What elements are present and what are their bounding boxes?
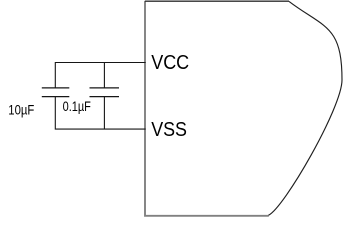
svg-text:10µF: 10µF [8,102,34,117]
svg-text:VSS: VSS [151,118,187,141]
svg-text:0.1µF: 0.1µF [63,99,91,114]
svg-text:VCC: VCC [151,51,189,74]
